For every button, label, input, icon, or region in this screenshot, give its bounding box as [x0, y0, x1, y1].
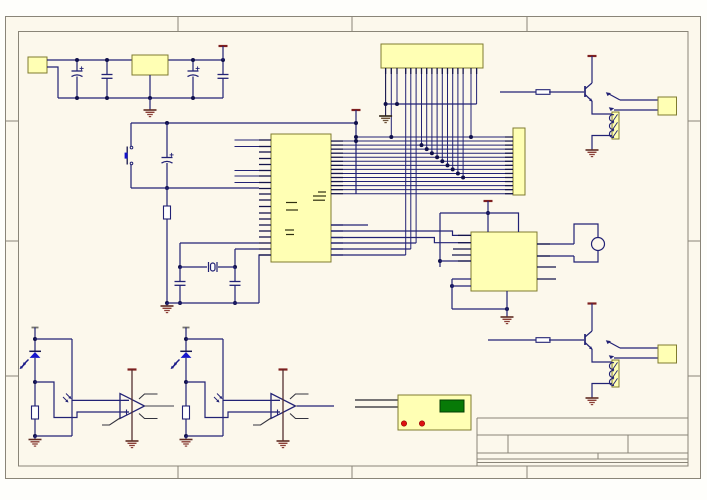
comparator stub lower	[290, 414, 309, 419]
wire mcu dangling right	[331, 224, 368, 226]
buzzer LS1	[574, 224, 598, 262]
wire XTAL2	[235, 248, 259, 250]
wire U1 ground pin	[149, 75, 151, 98]
wire branch to collector	[35, 338, 72, 340]
mcu U2 internal pin name marks	[285, 192, 326, 235]
wire sensor vcc	[34, 328, 36, 353]
wire comparator output	[296, 405, 326, 407]
mcu left pin stubs	[259, 140, 271, 255]
wire MCU gnd pin path	[259, 255, 271, 303]
comparator stub upper	[290, 394, 309, 399]
wire comparator minus input	[72, 399, 129, 401]
wire comparator power	[131, 370, 133, 442]
relay contact 2	[614, 109, 658, 111]
power bar VCC relay	[588, 302, 597, 304]
capacitor C4	[222, 60, 224, 75]
wire U3 lower-left loop	[452, 278, 471, 280]
wire sensor bottom rail	[35, 435, 72, 437]
wire mcu to U3 data2	[331, 238, 471, 243]
header pin drop wires	[386, 68, 477, 255]
power bar sensor	[183, 327, 190, 329]
ic U3 right stubs	[537, 266, 556, 268]
wire buzzer plus	[537, 243, 574, 245]
op-amp comparator	[120, 394, 145, 419]
power bar VCC U3	[484, 200, 493, 202]
wire divider branch	[186, 382, 280, 418]
header pin stubs	[386, 68, 477, 74]
ground sensor	[185, 436, 187, 440]
wire sensor2 output	[297, 405, 334, 407]
power bar VCC psu output	[219, 45, 228, 47]
wire mcu P0 rows to header	[331, 254, 406, 256]
comparator stub upper	[139, 394, 158, 399]
ground sensor	[34, 436, 36, 440]
power bar comparator	[128, 368, 137, 370]
wire emitter to coil	[592, 101, 612, 114]
ic U3 body	[471, 232, 537, 291]
wire RST net	[131, 187, 259, 189]
crystal Y1	[180, 266, 207, 268]
wire XTAL1	[180, 242, 259, 244]
resistor base	[536, 338, 550, 343]
wire resistor to base	[549, 91, 584, 93]
wire header ground rail	[386, 103, 477, 105]
relay driver circuit top	[500, 56, 677, 157]
power bar sensor	[32, 327, 39, 329]
connector J2 top header	[381, 44, 483, 68]
power bar comparator	[279, 368, 288, 370]
wire emitter to coil	[592, 349, 612, 362]
wire collector drop	[222, 339, 224, 436]
opto sensor circuit 1	[20, 328, 174, 448]
wire comparator power	[282, 370, 284, 442]
phototransistor arrows	[217, 394, 222, 399]
connector J3 right header	[513, 128, 525, 195]
capacitor C7 crystal	[234, 267, 236, 282]
wire top rail after regulator	[168, 59, 223, 61]
connector J1 power input	[28, 57, 47, 73]
phototransistor arrows	[66, 394, 71, 399]
wire collector to vcc	[591, 304, 593, 332]
comparator stub lower	[139, 414, 158, 419]
relay contact 1	[620, 347, 658, 349]
wire gnd bottom rail	[58, 97, 223, 99]
transistor Q	[584, 86, 586, 97]
mcu U2 body	[271, 134, 331, 262]
regulator U1 7805	[132, 55, 168, 75]
relay coil K	[612, 360, 619, 387]
wire data bus lines	[343, 137, 513, 194]
wire led to divider	[34, 358, 36, 406]
led D emitter	[29, 350, 41, 352]
ground reset	[165, 301, 169, 305]
capacitor C6 crystal	[179, 267, 181, 282]
capacitor C2	[106, 60, 108, 75]
capacitor C5 reset	[166, 123, 168, 158]
wire VIN top rail	[47, 59, 132, 61]
relay contact 2	[614, 357, 658, 359]
ground comparator	[126, 440, 139, 442]
connector relay output	[658, 97, 677, 115]
ground relay	[586, 397, 599, 399]
capacitor C1	[76, 60, 78, 71]
wire U3 ground pin	[506, 291, 508, 317]
wire collector to vcc	[591, 56, 593, 83]
wire mcu to U3 data1	[331, 231, 471, 235]
relay driver circuit bottom	[488, 304, 677, 405]
ground header	[385, 104, 387, 116]
mcu right pin stubs	[331, 141, 343, 255]
led D emitter	[180, 350, 192, 352]
wire relay input	[500, 91, 536, 93]
comparator stub left	[253, 418, 271, 425]
wire U3 top loop	[440, 213, 519, 232]
wire J1 pin2 to gnd rail	[47, 67, 58, 98]
resistor base	[536, 90, 550, 95]
wire VCC riser	[355, 110, 357, 194]
wire crystal ground rail	[167, 302, 259, 304]
capacitor C3	[192, 60, 194, 71]
ground U3	[501, 316, 514, 318]
wire comparator minus input	[223, 399, 280, 401]
wire lcd pin1	[355, 399, 398, 401]
relay contact 1	[620, 99, 658, 101]
transistor Q	[584, 334, 586, 345]
op-amp comparator	[271, 394, 296, 419]
relay coil K	[612, 112, 619, 139]
resistor R sensor	[183, 406, 190, 419]
ground comparator	[277, 440, 290, 442]
wire VCC reset top rail	[131, 122, 356, 124]
power bar VCC mid	[352, 109, 361, 111]
wire buzzer minus	[537, 255, 574, 257]
connector relay output	[658, 345, 677, 363]
resistor R1 reset	[166, 188, 168, 206]
wire coil to ground	[592, 384, 612, 399]
connector J3 pin stubs	[505, 137, 513, 194]
ic U3 left stubs	[453, 248, 471, 250]
wire relay input	[488, 339, 536, 341]
wire branch to collector	[186, 338, 223, 340]
comparator stub left	[102, 418, 120, 425]
wire resistor to base	[549, 339, 584, 341]
title block	[477, 418, 688, 466]
pushbutton S1 reset	[130, 123, 132, 146]
lcd module M1	[398, 395, 471, 430]
ground relay	[586, 149, 599, 151]
wire sensor bottom rail	[186, 435, 223, 437]
wire lcd pin2	[355, 406, 398, 408]
power bar VCC relay	[588, 55, 597, 57]
opto sensor circuit 2	[171, 328, 325, 448]
wire comparator output	[145, 405, 175, 407]
wire collector drop	[71, 339, 73, 436]
wire coil to ground	[592, 136, 612, 151]
junction dots bus staircase	[389, 135, 473, 180]
resistor R sensor	[32, 406, 39, 419]
ground power supply	[149, 98, 151, 110]
wire divider branch	[35, 382, 129, 418]
wire led to divider	[185, 358, 187, 406]
wire sensor vcc	[185, 328, 187, 353]
wire U3 vcc riser	[487, 201, 489, 232]
wire mcu left dangling nets	[235, 140, 260, 183]
